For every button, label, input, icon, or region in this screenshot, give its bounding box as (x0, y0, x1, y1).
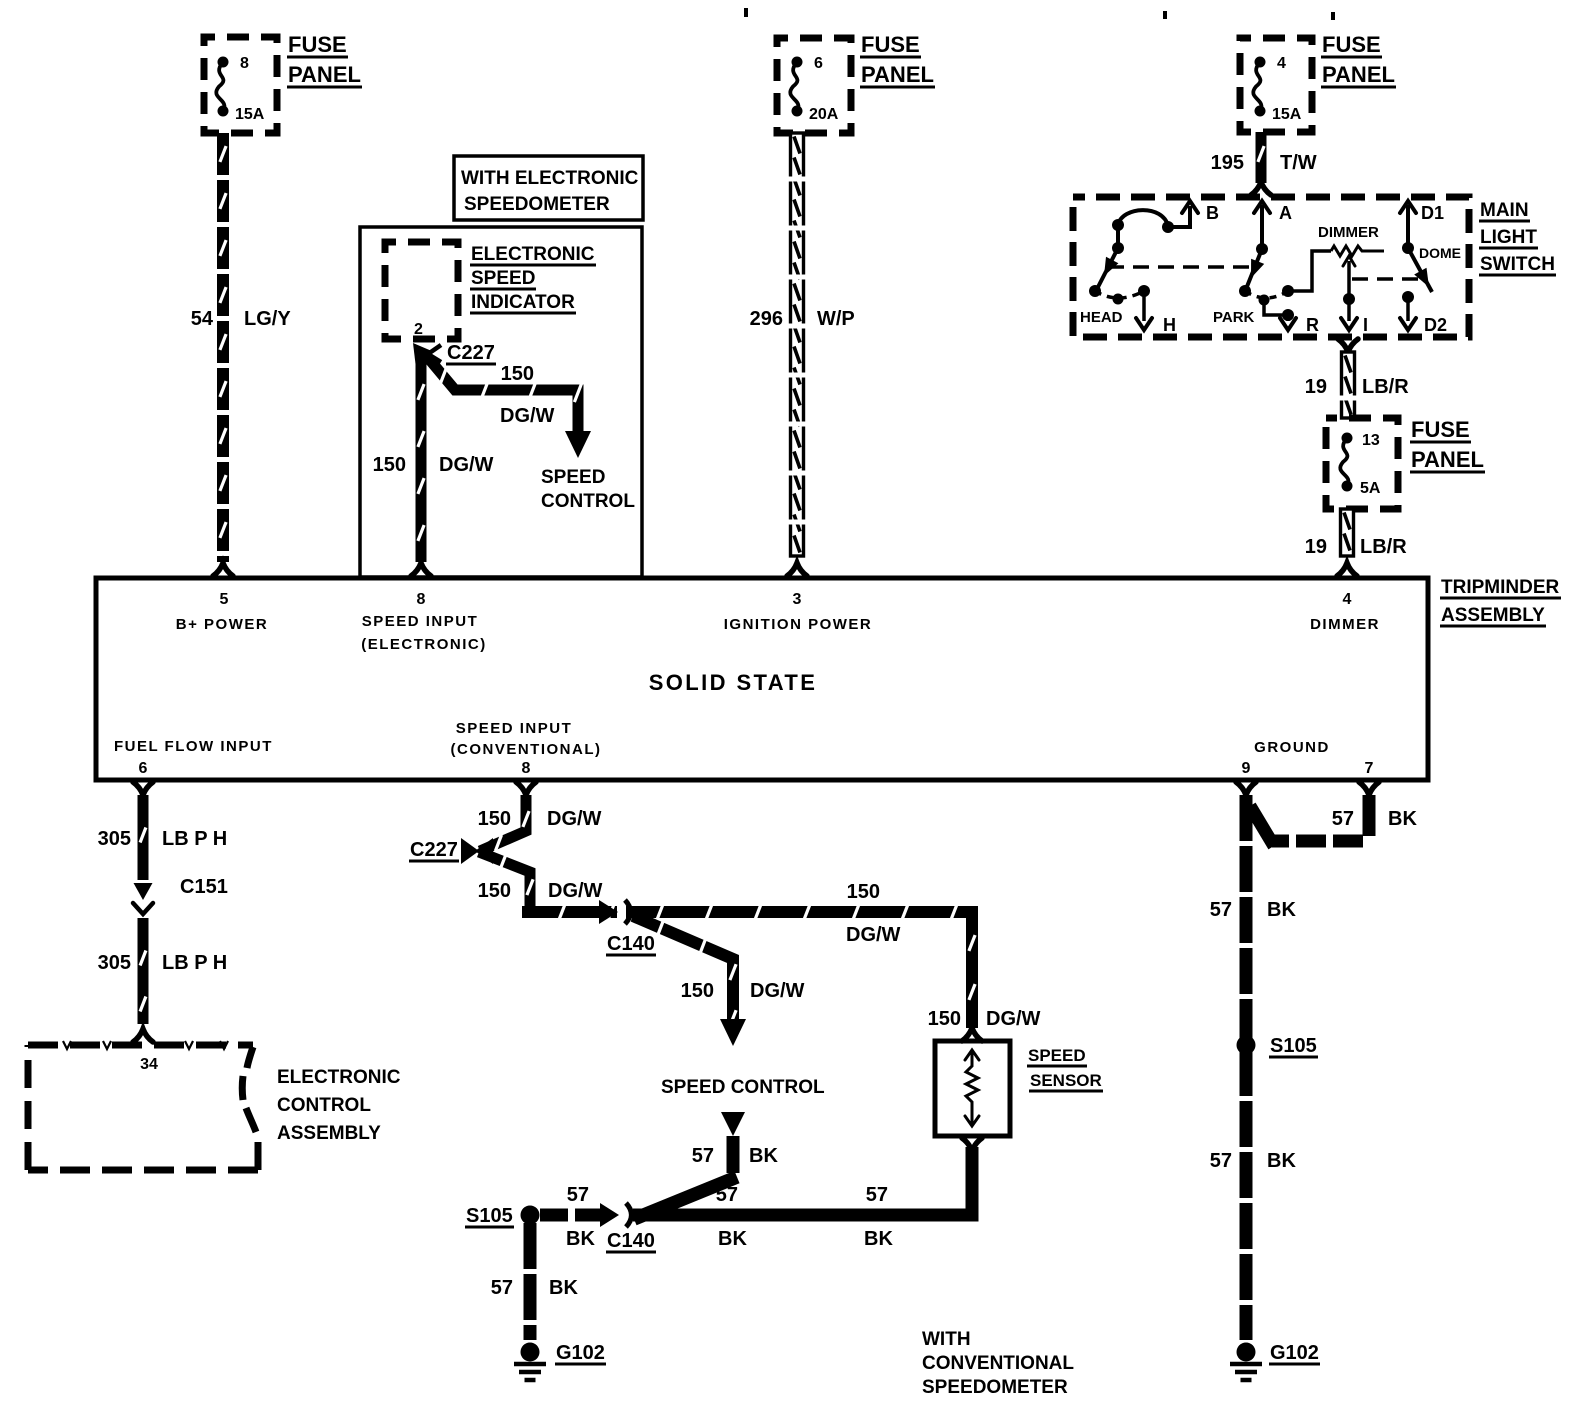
svg-text:WITH ELECTRONIC: WITH ELECTRONIC (461, 168, 639, 189)
scan speck marks (744, 8, 1335, 20)
connector C140 (upper) (599, 900, 656, 955)
svg-text:FUSE: FUSE (288, 32, 347, 57)
label WITH CONVENTIONAL SPEEDOMETER (922, 1329, 1074, 1398)
wire 305 LB P H lower (133, 918, 153, 1042)
label 57 BK (stub) (692, 1145, 779, 1167)
svg-text:G102: G102 (1270, 1342, 1319, 1364)
svg-text:9: 9 (1242, 760, 1251, 777)
label 57 BK at C140 (566, 1184, 595, 1250)
label 150 DG/W (vertical) (373, 454, 494, 476)
svg-text:LB/R: LB/R (1360, 536, 1407, 558)
label ELECTRONIC SPEED INDICATOR (470, 244, 596, 313)
svg-text:PARK: PARK (1213, 309, 1255, 326)
svg-text:H: H (1163, 315, 1176, 335)
svg-text:305: 305 (98, 952, 131, 974)
svg-text:DOME: DOME (1419, 245, 1461, 261)
svg-text:DG/W: DG/W (439, 454, 494, 476)
svg-text:LB P H: LB P H (162, 828, 227, 850)
svg-text:LG/Y: LG/Y (244, 308, 291, 330)
connector C227 (lower) (409, 838, 493, 864)
pins 9 7 GROUND (1242, 739, 1374, 777)
dimmer wiper and I terminal arrow (1341, 256, 1368, 335)
svg-text:BK: BK (749, 1145, 778, 1167)
svg-text:FUSE: FUSE (861, 32, 920, 57)
junction S105 (right) (1237, 1035, 1319, 1057)
label FUSE PANEL (right) (1321, 32, 1396, 87)
svg-text:T/W: T/W (1280, 152, 1317, 174)
svg-text:5A: 5A (1360, 480, 1381, 497)
connector C227 at indicator (413, 342, 496, 365)
pin 4 DIMMER (1310, 591, 1380, 633)
svg-text:FUSE: FUSE (1411, 417, 1470, 442)
svg-text:BK: BK (1267, 899, 1296, 921)
svg-text:150: 150 (928, 1008, 961, 1030)
ground G102 (right) (1230, 1342, 1320, 1380)
svg-text:C140: C140 (607, 933, 655, 955)
label FUSE PANEL (left) (287, 32, 362, 87)
node D1 terminal arrow (1400, 201, 1444, 248)
svg-text:150: 150 (478, 880, 511, 902)
dashed linkage line right (1352, 277, 1424, 281)
svg-text:150: 150 (478, 808, 511, 830)
svg-text:150: 150 (501, 363, 534, 385)
svg-text:FUEL FLOW INPUT: FUEL FLOW INPUT (114, 738, 273, 755)
svg-text:(ELECTRONIC): (ELECTRONIC) (361, 636, 487, 653)
svg-text:A: A (1279, 203, 1292, 223)
fuse F2 6 / 20A (790, 55, 839, 123)
svg-text:W/P: W/P (817, 308, 855, 330)
pin 8 SPEED INPUT (ELECTRONIC) (361, 591, 487, 653)
speed control arrow and stub 57 BK (634, 1112, 745, 1219)
svg-text:SPEED INPUT: SPEED INPUT (456, 720, 573, 737)
dashed contact arc HEAD (1095, 291, 1144, 298)
label 150 DG/W (sensor) (928, 1008, 1041, 1030)
tripminder assembly box (96, 578, 1428, 780)
svg-text:CONTROL: CONTROL (277, 1095, 371, 1116)
svg-text:(CONVENTIONAL): (CONVENTIONAL) (451, 741, 602, 758)
svg-text:SPEED: SPEED (471, 268, 535, 289)
switch wiper HEAD (1089, 225, 1124, 297)
svg-text:8: 8 (240, 55, 249, 72)
svg-text:LB/R: LB/R (1362, 376, 1409, 398)
svg-text:19: 19 (1305, 536, 1327, 558)
svg-text:54: 54 (191, 308, 214, 330)
label ELECTRONIC CONTROL ASSEMBLY (277, 1067, 401, 1144)
wire 57 BK pin 7 jog (1250, 782, 1379, 846)
node B terminal arrow (1168, 201, 1219, 227)
labels 57 BK along bus (716, 1184, 894, 1250)
svg-text:C151: C151 (180, 876, 228, 898)
svg-text:D2: D2 (1424, 315, 1447, 335)
wire 57 BK sensor to bus (966, 1151, 979, 1215)
svg-text:PANEL: PANEL (288, 62, 361, 87)
svg-text:150: 150 (373, 454, 406, 476)
label 57 BK (lower right) (1210, 1150, 1297, 1172)
svg-text:15A: 15A (235, 106, 265, 123)
label 150 DG/W (first) (478, 808, 602, 830)
svg-text:GROUND: GROUND (1254, 739, 1330, 756)
svg-text:57: 57 (567, 1184, 589, 1206)
label FUSE PANEL (middle) (860, 32, 935, 87)
wire 150 DG/W branch to speed control (633, 916, 746, 1046)
svg-text:B+ POWER: B+ POWER (176, 616, 268, 633)
svg-text:BK: BK (1267, 1150, 1296, 1172)
svg-text:57: 57 (491, 1277, 513, 1299)
electronic speed indicator box (dashed) (385, 242, 458, 339)
wire 57 BK S105 to C140 (dashed) (540, 1209, 608, 1222)
svg-text:MAIN: MAIN (1480, 200, 1529, 221)
svg-text:SPEED CONTROL: SPEED CONTROL (661, 1077, 825, 1098)
svg-text:C140: C140 (607, 1230, 655, 1252)
svg-text:5: 5 (220, 591, 229, 608)
fuse F4 13 / 5A (1340, 432, 1381, 497)
svg-text:S105: S105 (466, 1205, 513, 1227)
svg-text:4: 4 (1343, 591, 1352, 608)
svg-text:HEAD: HEAD (1080, 309, 1123, 326)
wire 150 DG/W indicator to pin 8 (411, 352, 431, 576)
svg-text:G102: G102 (556, 1342, 605, 1364)
svg-text:DIMMER: DIMMER (1318, 224, 1379, 241)
DIMMER rheostat (1288, 224, 1384, 291)
wire 150 DG/W pin 8 to C227 (480, 782, 536, 851)
svg-text:LB P H: LB P H (162, 952, 227, 974)
label 57 BK (pin 7) (1332, 808, 1418, 830)
caption box WITH ELECTRONIC SPEEDOMETER (454, 156, 643, 220)
svg-text:7: 7 (1365, 760, 1374, 777)
pin 5 B+ POWER (176, 591, 268, 633)
svg-text:PANEL: PANEL (1411, 447, 1484, 472)
svg-text:BK: BK (549, 1277, 578, 1299)
svg-text:C227: C227 (410, 839, 458, 861)
label 150 DG/W (branch lower) (681, 980, 805, 1002)
label FUSE PANEL (lower right) (1410, 417, 1485, 472)
connector C151 (133, 876, 228, 914)
label TRIPMINDER ASSEMBLY (1440, 577, 1561, 626)
label 150 DG/W (branch) (500, 363, 555, 427)
svg-text:4: 4 (1277, 55, 1286, 72)
svg-text:SENSOR: SENSOR (1030, 1071, 1102, 1090)
svg-text:I: I (1363, 315, 1368, 335)
fuse F1 8 / 15A (216, 55, 265, 123)
svg-text:57: 57 (1210, 1150, 1232, 1172)
label 57 BK (upper right) (1210, 899, 1297, 921)
svg-text:SPEEDOMETER: SPEEDOMETER (922, 1377, 1068, 1398)
svg-text:57: 57 (866, 1184, 888, 1206)
speed sensor box (935, 1028, 1010, 1151)
label SPEED SENSOR (1027, 1046, 1103, 1091)
fuse panel F4 box (dashed) (1326, 418, 1398, 509)
park contacts and R terminal (1259, 285, 1320, 335)
svg-text:ASSEMBLY: ASSEMBLY (1441, 605, 1545, 626)
svg-text:SOLID STATE: SOLID STATE (649, 670, 818, 695)
label 150 DG/W (bus right) (846, 881, 901, 946)
svg-text:IGNITION POWER: IGNITION POWER (724, 616, 873, 633)
switch wiper DOME (1402, 242, 1461, 292)
fuse panel F2 box (dashed) (777, 38, 851, 133)
electronic control assembly box (dashed) (28, 1041, 258, 1170)
wire 54 LG/Y from fuse panel to pin 5 (213, 133, 233, 576)
svg-text:CONTROL: CONTROL (541, 491, 635, 512)
ground G102 (left) (514, 1342, 606, 1380)
svg-text:LIGHT: LIGHT (1480, 227, 1537, 248)
label 19 LB/R (upper) (1305, 376, 1409, 398)
svg-text:57: 57 (692, 1145, 714, 1167)
svg-text:SPEEDOMETER: SPEEDOMETER (464, 194, 610, 215)
svg-text:3: 3 (793, 591, 802, 608)
svg-text:DG/W: DG/W (846, 924, 901, 946)
svg-text:57: 57 (1210, 899, 1232, 921)
svg-text:PANEL: PANEL (1322, 62, 1395, 87)
svg-text:SPEED: SPEED (1028, 1046, 1086, 1065)
svg-text:296: 296 (750, 308, 783, 330)
electronic speedometer section box (360, 227, 642, 577)
label 296 W/P (750, 308, 855, 330)
svg-text:15A: 15A (1272, 106, 1302, 123)
svg-text:DG/W: DG/W (500, 405, 555, 427)
svg-text:BK: BK (718, 1228, 747, 1250)
label 150 DG/W (second) (478, 880, 603, 902)
label 305 LB P H lower (98, 952, 228, 974)
label 19 LB/R (lower) (1305, 536, 1407, 558)
pin 3 IGNITION POWER (724, 591, 873, 633)
wire 19 LB/R switch to fuse 13 (1338, 339, 1358, 418)
label 54 LG/Y (191, 308, 292, 330)
svg-text:8: 8 (417, 591, 426, 608)
wire 150 DG/W horizontal bus to speed sensor (522, 912, 972, 1028)
wire 57 BK pin 9 down (1236, 782, 1256, 1340)
svg-text:BK: BK (566, 1228, 595, 1250)
fuse panel F3 box (dashed) (1240, 38, 1312, 132)
main light switch box (dashed) (1073, 197, 1469, 337)
svg-text:TRIPMINDER: TRIPMINDER (1441, 577, 1560, 598)
svg-text:57: 57 (716, 1184, 738, 1206)
svg-text:DIMMER: DIMMER (1310, 616, 1380, 633)
svg-text:WITH: WITH (922, 1329, 971, 1350)
wire 150 DG/W C227 to C140 run (479, 852, 530, 912)
svg-text:SPEED INPUT: SPEED INPUT (362, 613, 479, 630)
svg-text:D1: D1 (1421, 203, 1444, 223)
svg-text:BK: BK (1388, 808, 1417, 830)
svg-text:ASSEMBLY: ASSEMBLY (277, 1123, 381, 1144)
svg-text:C227: C227 (447, 342, 495, 364)
pin 8 SPEED INPUT (CONVENTIONAL) (451, 720, 602, 777)
dashed contact arc PARK (1245, 291, 1288, 298)
svg-text:S105: S105 (1270, 1035, 1317, 1057)
label 57 BK (left ground) (491, 1277, 579, 1299)
svg-text:DG/W: DG/W (750, 980, 805, 1002)
wire 19 LB/R fuse to pin 4 (1337, 509, 1357, 576)
svg-text:SWITCH: SWITCH (1480, 254, 1555, 275)
svg-text:305: 305 (98, 828, 131, 850)
svg-text:SPEED: SPEED (541, 467, 605, 488)
dot and H terminal arrow (1113, 285, 1177, 335)
wire 296 W/P from fuse panel to pin 3 (787, 133, 807, 576)
svg-text:FUSE: FUSE (1322, 32, 1381, 57)
fuse panel F1 box (dashed) (204, 37, 277, 133)
wire 57 BK bus to speed sensor (633, 1147, 972, 1215)
switch HEAD contact arc (1112, 210, 1174, 233)
svg-text:PANEL: PANEL (861, 62, 934, 87)
svg-text:2: 2 (414, 321, 423, 338)
switch wiper PARK (1239, 243, 1268, 297)
svg-text:CONVENTIONAL: CONVENTIONAL (922, 1353, 1074, 1374)
svg-text:B: B (1206, 203, 1219, 223)
svg-text:34: 34 (140, 1056, 158, 1073)
svg-text:57: 57 (1332, 808, 1354, 830)
svg-text:DG/W: DG/W (548, 880, 603, 902)
svg-text:DG/W: DG/W (547, 808, 602, 830)
connector C140 (lower) (600, 1203, 656, 1252)
label SPEED CONTROL (electronic) (541, 467, 635, 512)
label 305 LB P H upper (98, 828, 228, 850)
svg-text:R: R (1306, 315, 1319, 335)
node A terminal arrow (1254, 201, 1292, 249)
label 195 T/W (1211, 152, 1317, 174)
svg-text:195: 195 (1211, 152, 1244, 174)
svg-text:8: 8 (522, 760, 531, 777)
svg-text:13: 13 (1362, 432, 1380, 449)
svg-text:20A: 20A (809, 106, 839, 123)
svg-text:ELECTRONIC: ELECTRONIC (471, 244, 595, 265)
svg-text:BK: BK (864, 1228, 893, 1250)
wire 150 DG/W indicator to speed control (branch) (424, 353, 591, 458)
svg-text:INDICATOR: INDICATOR (471, 292, 575, 313)
svg-text:DG/W: DG/W (986, 1008, 1041, 1030)
wire 195 T/W to main light switch (1251, 132, 1271, 195)
wire 305 LB P H upper (133, 782, 153, 900)
svg-text:150: 150 (847, 881, 880, 903)
fuse F3 4 / 15A (1253, 55, 1302, 123)
node D2 terminal arrow (1400, 291, 1447, 335)
svg-text:6: 6 (139, 760, 148, 777)
dashed linkage line left (1108, 265, 1252, 269)
wire 57 BK S105 to G102 (left) (524, 1223, 537, 1340)
svg-text:ELECTRONIC: ELECTRONIC (277, 1067, 401, 1088)
svg-text:150: 150 (681, 980, 714, 1002)
junction S105 (left) (465, 1205, 540, 1227)
pin 6 FUEL FLOW INPUT (114, 738, 273, 777)
label MAIN LIGHT SWITCH (1479, 200, 1556, 275)
svg-text:6: 6 (814, 55, 823, 72)
svg-text:19: 19 (1305, 376, 1327, 398)
